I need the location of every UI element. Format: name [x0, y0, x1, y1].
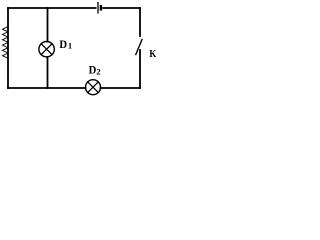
svg-text:2: 2 [96, 67, 100, 77]
switch K [136, 40, 157, 60]
battery [98, 2, 101, 14]
svg-text:K: K [149, 48, 156, 60]
wire top-right (battery to right corner) [103, 7, 140, 9]
wire right side upper (to switch) [139, 8, 141, 36]
wire top-left (battery to left corner) [8, 7, 96, 9]
lamp D2 [86, 63, 101, 95]
wire bottom-left (left corner to lamp D2) [8, 87, 86, 89]
wire left side [7, 8, 9, 88]
lamp D1 [39, 37, 72, 57]
resistor [3, 27, 9, 59]
svg-text:D: D [59, 37, 67, 51]
svg-text:1: 1 [68, 41, 72, 51]
wire bottom-right (lamp D2 to right corner) [101, 87, 141, 89]
wire right side lower (switch to bottom corner) [139, 50, 141, 88]
wire D1 branch upper [47, 8, 49, 42]
wire D1 branch lower [47, 57, 49, 88]
